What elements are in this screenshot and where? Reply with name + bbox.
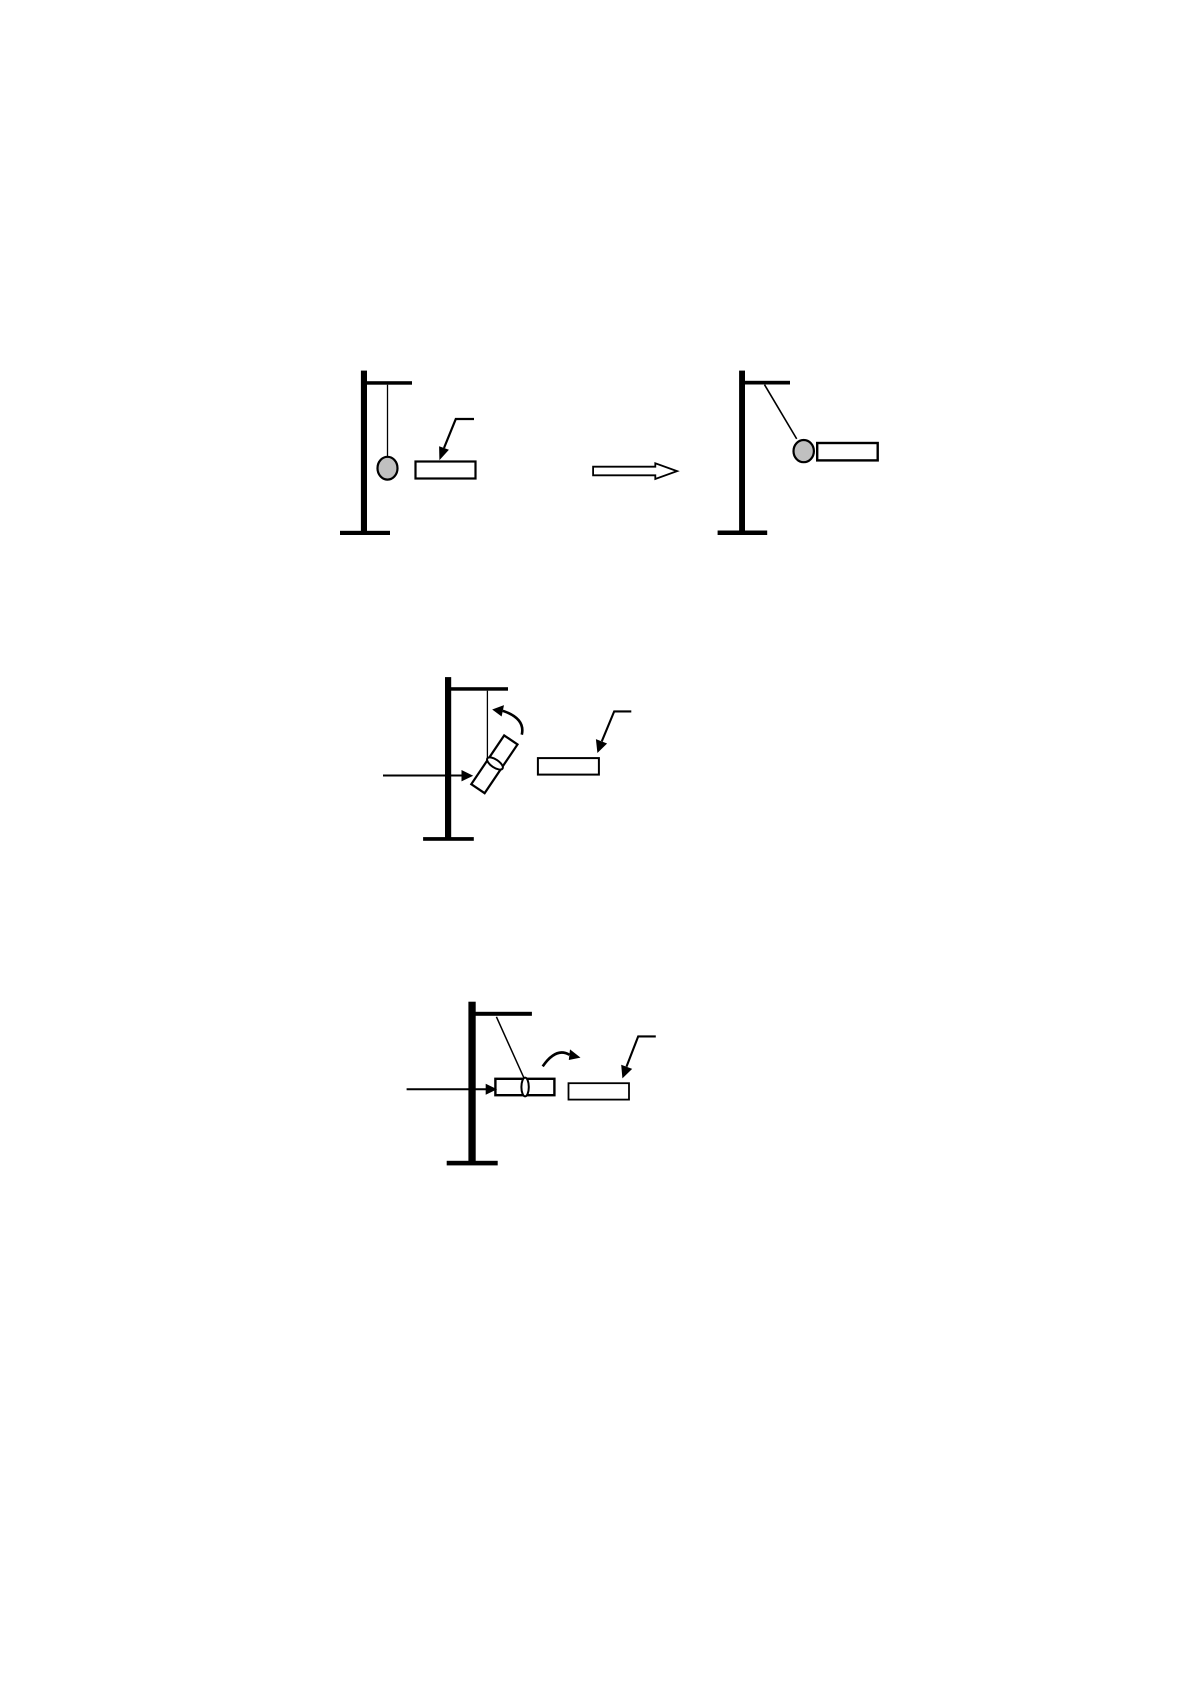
figure 1 left: leader arrow to blower box [444,419,474,448]
figure 2: label box [538,758,599,775]
figure 1 right: swung pendulum string [765,385,797,439]
figure 2: stand base [423,837,474,841]
figure 2: suspension string [486,691,488,758]
figure 3: retort stand pole [468,1002,475,1165]
transition block arrow [593,463,677,479]
figure 1 left: pendulum string [387,385,389,457]
figure 2: tilted hanging tube [470,735,518,794]
figure 3: horizontal air-flow arrow [407,1088,486,1090]
figure 1 right: pendulum bob displaced [794,440,814,462]
figure 3: label box [569,1083,630,1099]
figure 2: retort stand pole [445,677,451,840]
figure 2: curved rotation arrow [503,711,523,735]
figure 3: curved rotation arrow [543,1053,570,1067]
figure 2: leader arrow to label box [602,711,632,741]
figure 1 left: stand base [340,531,390,535]
figure 1 right: blower box beside bob [817,443,878,460]
figure 3: suspension string (slanted) [496,1017,524,1079]
figure 1 left: retort stand pole [361,371,367,535]
figure 3: horizontal hanging tube [495,1079,554,1095]
figure 2: stand top crossbar [449,687,508,691]
figure 1 left: pendulum bob [378,457,398,480]
figure 3: tube mid ellipse [521,1078,528,1097]
figure 1 left: stand top crossbar [365,381,412,385]
figure 2: horizontal air-flow arrow [383,775,462,777]
figure 1 right: stand top crossbar [744,381,791,385]
figure 3: stand base [447,1161,498,1166]
figure 1 left: blower box (hair dryer) [416,462,476,479]
figure 3: leader arrow to label box [627,1036,656,1066]
figure 2: tube mouth ellipse [485,755,505,772]
figure 1 right: retort stand pole [739,371,745,535]
figure 3: stand top crossbar [474,1012,532,1016]
figure 1 right: stand base [718,531,768,536]
